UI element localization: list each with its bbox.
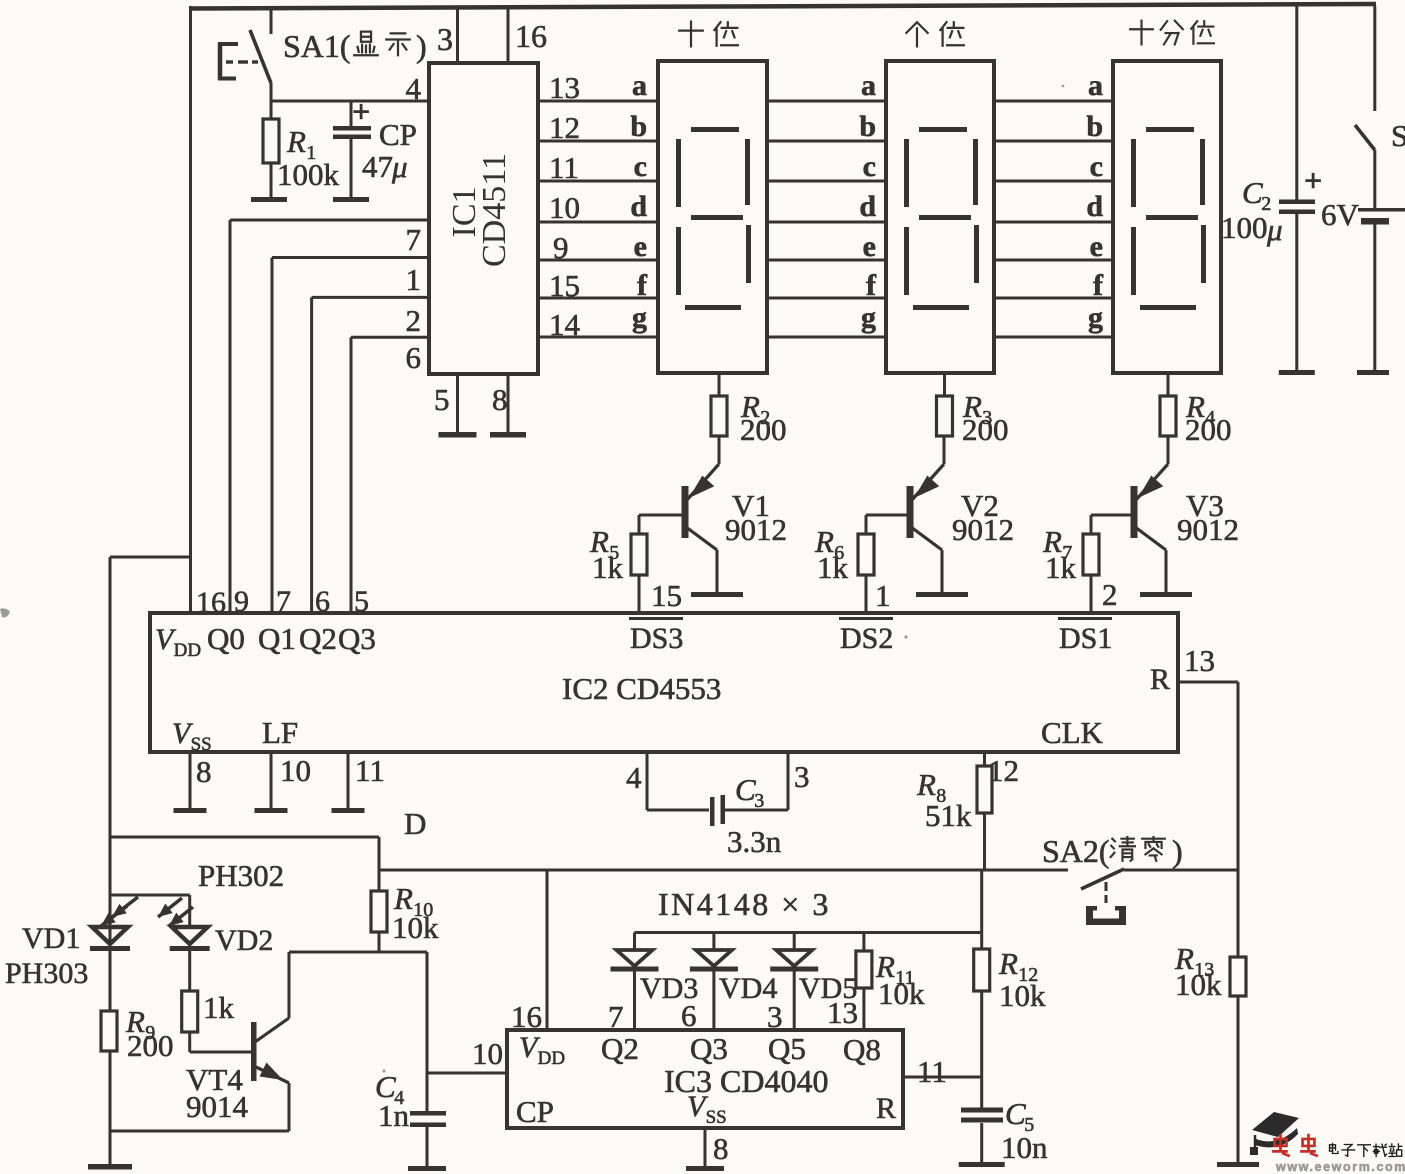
svg-text:200: 200: [740, 412, 787, 447]
svg-text:d: d: [859, 190, 876, 223]
svg-text:8: 8: [713, 1131, 729, 1166]
svg-text:CD4511: CD4511: [476, 153, 513, 267]
svg-text:g: g: [632, 301, 647, 334]
svg-text:1k: 1k: [1045, 550, 1077, 585]
svg-text:): ): [416, 28, 427, 64]
svg-text:10n: 10n: [1001, 1130, 1048, 1165]
svg-text:200: 200: [1185, 412, 1232, 447]
svg-text:S: S: [1391, 118, 1405, 153]
svg-text:9012: 9012: [1177, 512, 1239, 547]
svg-text:47: 47: [362, 149, 393, 184]
svg-text:DS2: DS2: [840, 622, 893, 655]
svg-text:13: 13: [549, 70, 580, 105]
svg-text:7: 7: [406, 222, 422, 257]
svg-text:16: 16: [196, 586, 226, 619]
svg-text:10k: 10k: [999, 978, 1046, 1013]
svg-text:10k: 10k: [1175, 967, 1222, 1002]
svg-text:CP: CP: [516, 1094, 554, 1129]
svg-text:10k: 10k: [878, 976, 925, 1011]
svg-text:10: 10: [472, 1036, 503, 1071]
svg-text:Q2: Q2: [601, 1031, 639, 1066]
svg-text:51k: 51k: [925, 798, 972, 833]
svg-text:IN4148 × 3: IN4148 × 3: [658, 886, 831, 922]
svg-text:1n: 1n: [378, 1098, 410, 1133]
svg-text:a: a: [632, 69, 647, 102]
svg-text:11: 11: [549, 150, 579, 185]
svg-text:1: 1: [875, 578, 891, 613]
svg-text:VD4: VD4: [719, 972, 777, 1005]
svg-text:1k: 1k: [592, 550, 624, 585]
svg-text:a: a: [1088, 69, 1103, 102]
svg-text:100k: 100k: [277, 157, 340, 192]
svg-text:IC2 CD4553: IC2 CD4553: [562, 671, 721, 706]
svg-text:μ: μ: [391, 149, 408, 184]
svg-text:D: D: [404, 806, 426, 841]
svg-text:b: b: [859, 110, 876, 143]
svg-text:c: c: [1090, 150, 1103, 183]
svg-text:100: 100: [1221, 210, 1268, 245]
svg-text:R: R: [916, 767, 936, 802]
svg-text:7: 7: [276, 585, 291, 618]
svg-text:9014: 9014: [186, 1089, 249, 1124]
svg-text:Q0: Q0: [207, 621, 245, 656]
svg-text:DS1: DS1: [1059, 622, 1112, 655]
svg-text:Q2: Q2: [299, 621, 337, 656]
svg-text:3: 3: [754, 790, 764, 812]
svg-text:VD1: VD1: [22, 922, 80, 955]
svg-text:C: C: [1242, 175, 1263, 210]
svg-text:g: g: [861, 301, 876, 334]
svg-text:8: 8: [492, 382, 508, 417]
svg-text:2: 2: [406, 303, 422, 338]
svg-text:c: c: [634, 150, 647, 183]
svg-text:12: 12: [988, 753, 1019, 788]
svg-text:10k: 10k: [392, 910, 439, 945]
svg-text:9012: 9012: [725, 512, 787, 547]
svg-text:d: d: [630, 190, 647, 223]
svg-text:6: 6: [406, 340, 422, 375]
svg-text:10: 10: [280, 753, 311, 788]
svg-text:c: c: [863, 150, 876, 183]
svg-text:8: 8: [196, 754, 212, 789]
svg-text:f: f: [866, 269, 877, 302]
svg-text:R: R: [1150, 663, 1170, 696]
svg-text:DD: DD: [174, 640, 201, 661]
svg-text:VD3: VD3: [640, 972, 698, 1005]
svg-text:f: f: [637, 269, 648, 302]
svg-text:VD5: VD5: [799, 972, 857, 1005]
svg-text:13: 13: [1184, 643, 1215, 678]
svg-text:12: 12: [549, 110, 580, 145]
svg-text:Q8: Q8: [843, 1032, 881, 1067]
svg-text:e: e: [1090, 230, 1103, 263]
svg-text:b: b: [630, 110, 647, 143]
svg-text:3: 3: [794, 759, 810, 794]
svg-text:PH302: PH302: [198, 858, 284, 893]
svg-text:C: C: [735, 772, 756, 807]
svg-text:3: 3: [437, 21, 453, 57]
svg-text:2: 2: [1102, 577, 1118, 612]
svg-text:Q5: Q5: [768, 1031, 806, 1066]
svg-text:1: 1: [406, 262, 422, 297]
svg-text:e: e: [863, 230, 876, 263]
svg-text:9: 9: [234, 585, 249, 618]
svg-text:3.3n: 3.3n: [727, 824, 782, 859]
svg-text:16: 16: [511, 999, 542, 1034]
svg-text:b: b: [1086, 110, 1103, 143]
svg-text:11: 11: [917, 1054, 947, 1089]
svg-text:10: 10: [549, 190, 580, 225]
svg-text:4: 4: [626, 760, 642, 795]
svg-text:a: a: [861, 69, 876, 102]
svg-text:5: 5: [354, 585, 369, 618]
svg-text:6V: 6V: [1321, 197, 1360, 232]
svg-text:CLK: CLK: [1041, 715, 1104, 750]
svg-text:SS: SS: [706, 1107, 727, 1128]
svg-text:e: e: [634, 230, 647, 263]
svg-text:g: g: [1088, 301, 1103, 334]
svg-text:6: 6: [315, 585, 330, 618]
svg-text:DD: DD: [538, 1048, 565, 1069]
svg-text:R: R: [876, 1092, 896, 1125]
svg-text:1k: 1k: [203, 990, 235, 1025]
svg-text:DS3: DS3: [630, 622, 683, 655]
svg-text:Q1: Q1: [258, 621, 296, 656]
svg-text:μ: μ: [1266, 212, 1283, 247]
svg-text:200: 200: [127, 1028, 174, 1063]
svg-text:9012: 9012: [952, 512, 1014, 547]
svg-text:5: 5: [434, 382, 450, 417]
svg-text:PH303: PH303: [5, 957, 88, 990]
svg-text:Q3: Q3: [690, 1031, 728, 1066]
svg-text:Q3: Q3: [338, 621, 376, 656]
svg-text:www.eeworm.com: www.eeworm.com: [1275, 1160, 1405, 1174]
svg-text:f: f: [1093, 269, 1104, 302]
svg-text:11: 11: [355, 753, 385, 788]
svg-text:16: 16: [515, 18, 547, 54]
svg-text:9: 9: [553, 230, 569, 265]
svg-text:SA2(: SA2(: [1042, 833, 1110, 869]
svg-text:d: d: [1086, 190, 1103, 223]
svg-text:+: +: [1304, 162, 1322, 198]
svg-text:SS: SS: [191, 734, 212, 755]
svg-text:14: 14: [549, 307, 581, 342]
svg-text:200: 200: [962, 412, 1009, 447]
svg-text:+: +: [352, 93, 370, 129]
svg-text:CP: CP: [379, 117, 417, 152]
svg-text:7: 7: [608, 999, 624, 1034]
svg-text:SA1(: SA1(: [283, 28, 351, 64]
svg-text:1k: 1k: [817, 550, 849, 585]
svg-text:): ): [1172, 833, 1183, 869]
svg-text:VD2: VD2: [215, 924, 273, 957]
svg-text:15: 15: [549, 268, 580, 303]
svg-text:4: 4: [406, 71, 422, 106]
svg-text:R: R: [286, 124, 306, 159]
svg-text:R: R: [998, 946, 1018, 981]
svg-text:15: 15: [651, 578, 682, 613]
svg-text:C: C: [1005, 1096, 1026, 1131]
svg-text:LF: LF: [262, 715, 298, 750]
